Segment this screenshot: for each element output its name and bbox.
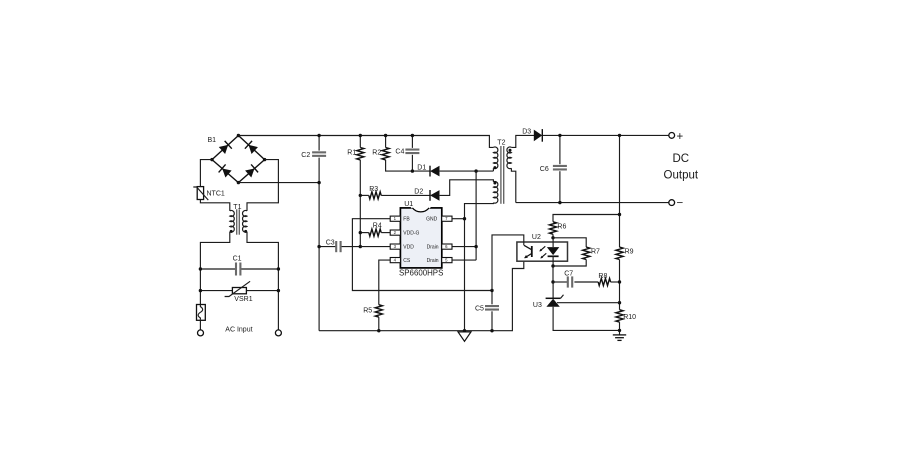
wire output sense branch	[619, 135, 621, 247]
transformer T2 core	[501, 146, 504, 204]
svg-text:C3: C3	[326, 240, 335, 247]
svg-text:+: +	[677, 131, 684, 143]
node R6 branch	[618, 213, 621, 216]
T1 polarity dots	[230, 230, 248, 233]
wire fuse to AC terminal	[199, 320, 201, 330]
svg-text:U2: U2	[532, 234, 541, 241]
U1 pin 4 CS	[390, 258, 411, 265]
capacitor C1	[199, 256, 280, 276]
svg-text:SP6600HPS: SP6600HPS	[399, 268, 443, 277]
diode D3	[522, 128, 542, 141]
label plus	[677, 131, 684, 143]
svg-text:NTC1: NTC1	[207, 190, 225, 197]
DC- terminal	[669, 200, 675, 206]
svg-text:R9: R9	[625, 249, 634, 256]
capacitor C2	[301, 134, 326, 247]
wire primary bottom rail	[319, 261, 524, 331]
transformer T2 auxiliary winding	[493, 182, 497, 204]
svg-text:R10: R10	[623, 314, 636, 321]
diode D2	[414, 180, 493, 201]
resistor R10	[616, 310, 636, 331]
resistor R8	[574, 273, 621, 286]
wire secondary bottom	[511, 168, 515, 202]
op-amp U1 chip body	[399, 201, 443, 277]
svg-text:C2: C2	[301, 152, 310, 159]
wire top DC rail	[238, 136, 493, 148]
capacitor C7	[551, 266, 573, 288]
svg-text:−: −	[677, 197, 684, 209]
node R9 R10 ref	[618, 301, 621, 304]
svg-text:U3: U3	[533, 302, 542, 309]
node + rail branch	[618, 134, 621, 137]
capacitor C4	[395, 134, 419, 171]
optocoupler U2 box	[517, 242, 568, 261]
svg-text:FB: FB	[403, 217, 410, 223]
ground symbol (earth)	[613, 329, 626, 341]
wire DC+ rail	[543, 134, 670, 136]
wire DC- rail	[516, 202, 669, 204]
svg-text:R7: R7	[591, 249, 600, 256]
svg-text:R1: R1	[347, 149, 356, 156]
U1 pin 3 VDD	[390, 244, 414, 251]
diode D1	[411, 164, 494, 176]
wire T2 aux bottom to GND line	[465, 203, 494, 331]
optocoupler U2 LED	[532, 234, 559, 266]
DC+ terminal	[669, 133, 675, 139]
capacitor C6	[540, 134, 567, 205]
U1 pin 5 Drain	[427, 258, 452, 265]
wire FB pin 1 run	[352, 219, 492, 291]
transformer T2 secondary winding	[507, 147, 511, 169]
node drain	[474, 169, 477, 172]
wire secondary top to D3	[511, 135, 534, 147]
svg-text:VDD-G: VDD-G	[403, 231, 419, 237]
svg-text:C4: C4	[395, 149, 404, 156]
resistor R9	[616, 247, 634, 310]
svg-text:R4: R4	[373, 223, 382, 230]
resistor R2	[372, 134, 412, 171]
AC input terminal left	[198, 330, 204, 336]
wire T2 primary bottom to drain node	[492, 168, 494, 171]
label minus	[677, 197, 684, 209]
wire R6 branch	[553, 215, 620, 222]
wire drain node down to U1 drain pins	[475, 171, 477, 260]
svg-text:R3: R3	[369, 186, 378, 193]
T2 polarity dots	[493, 149, 511, 185]
transformer T1 right winding	[243, 211, 247, 233]
transformer T1 core	[237, 209, 240, 234]
U1 pin 1 FB	[390, 216, 410, 223]
wire T1 left bottom to AC line	[200, 232, 229, 305]
resistor R6	[549, 222, 566, 240]
AC input terminal right	[275, 330, 281, 336]
resistor R5	[363, 260, 390, 331]
svg-text:VDD: VDD	[403, 245, 414, 251]
capacitor C3	[317, 240, 362, 253]
svg-text:R5: R5	[363, 308, 372, 315]
svg-text:D2: D2	[414, 189, 423, 196]
node C5 / rail	[490, 329, 493, 332]
label AC Input	[225, 327, 252, 334]
wire U3 ref to divider	[557, 302, 620, 304]
wire T1 right bottom to AC line	[247, 232, 278, 330]
U1 pin 6 Drain	[427, 244, 452, 251]
optocoupler U2 emission arrows	[539, 246, 546, 258]
varistor VSR1	[199, 281, 280, 303]
transformer T1 left winding	[230, 204, 242, 232]
transformer T2 primary winding	[493, 139, 505, 168]
ground symbol (signal)	[458, 329, 471, 341]
wire bridge bottom node to C2	[238, 182, 319, 184]
svg-text:B1: B1	[208, 137, 217, 144]
wire bridge right node down	[247, 160, 278, 211]
svg-text:D1: D1	[417, 164, 426, 171]
resistor R1	[347, 134, 364, 247]
resistor R3	[359, 186, 430, 199]
svg-text:C7: C7	[564, 270, 573, 277]
svg-text:U1: U1	[404, 201, 413, 208]
wire bridge left node to NTC1	[200, 160, 212, 187]
thermistor NTC1	[193, 187, 225, 201]
svg-text:C6: C6	[540, 166, 549, 173]
svg-text:R8: R8	[598, 273, 607, 280]
wire GND pin 7	[452, 217, 466, 220]
svg-text:CS: CS	[403, 258, 411, 264]
capacitor C5	[475, 289, 499, 331]
wire VDD to pin 3	[360, 246, 390, 248]
svg-text:AC Input: AC Input	[225, 327, 252, 334]
resistor R7	[551, 238, 600, 268]
svg-text:Output: Output	[664, 170, 699, 182]
svg-text:C1: C1	[233, 256, 242, 263]
fuse F1	[197, 305, 206, 321]
svg-text:T2: T2	[497, 139, 505, 146]
svg-text:R6: R6	[557, 224, 566, 231]
wire NTC1 to T1 primary top	[200, 200, 229, 211]
svg-text:T1: T1	[233, 204, 241, 211]
shunt regulator U3	[533, 282, 620, 330]
label DC Output	[664, 153, 699, 182]
svg-text:VSR1: VSR1	[234, 296, 252, 303]
optocoupler U2 phototransistor	[524, 245, 532, 258]
svg-text:D3: D3	[522, 128, 531, 135]
svg-text:GND: GND	[426, 217, 438, 223]
svg-text:DC: DC	[672, 153, 689, 165]
U1 pin 7 GND	[426, 216, 452, 223]
wire Drain pin 5	[452, 259, 476, 261]
resistor R4	[359, 223, 391, 237]
svg-text:Drain: Drain	[427, 245, 439, 251]
U1 pin 2 VDD-G	[390, 230, 419, 237]
node bridge bottom / C2	[317, 181, 320, 184]
node R5 / rail	[377, 329, 380, 332]
bridge rectifier B1	[208, 134, 267, 185]
wire opto collector to FB node	[492, 235, 524, 291]
wire Drain pin 6	[452, 245, 478, 248]
wire C2 line down to bottom rail	[318, 247, 320, 331]
svg-text:Drain: Drain	[427, 258, 439, 264]
svg-text:C5: C5	[475, 306, 484, 313]
svg-text:R2: R2	[372, 149, 381, 156]
